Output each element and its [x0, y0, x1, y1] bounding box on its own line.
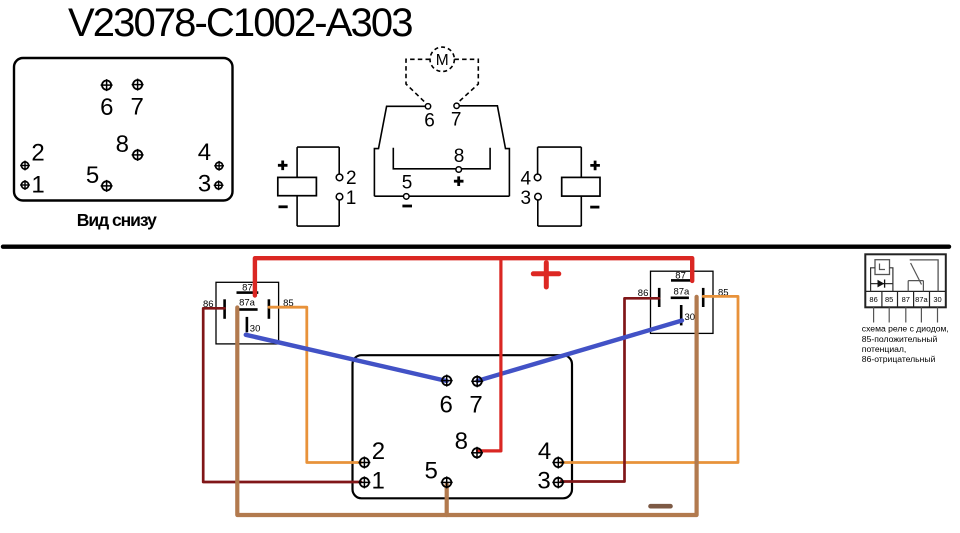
svg-text:4: 4 — [538, 438, 551, 465]
svg-text:87: 87 — [675, 270, 686, 281]
svg-text:7: 7 — [469, 391, 482, 418]
svg-text:87a: 87a — [239, 297, 256, 308]
svg-text:87: 87 — [242, 283, 253, 294]
svg-text:86-отрицательный: 86-отрицательный — [862, 354, 936, 364]
svg-text:3: 3 — [521, 188, 532, 209]
svg-text:3: 3 — [537, 468, 550, 495]
svg-text:30: 30 — [250, 323, 261, 334]
svg-text:2: 2 — [372, 438, 385, 465]
svg-text:8: 8 — [455, 428, 468, 455]
svg-text:6: 6 — [100, 94, 113, 121]
svg-text:схема реле с диодом,: схема реле с диодом, — [862, 323, 949, 333]
svg-text:87a: 87a — [915, 295, 928, 304]
svg-text:87: 87 — [902, 295, 910, 304]
svg-text:5: 5 — [425, 457, 438, 484]
svg-text:потенциал,: потенциал, — [862, 344, 907, 354]
svg-text:85: 85 — [885, 295, 893, 304]
svg-text:1: 1 — [31, 172, 44, 199]
svg-text:6: 6 — [440, 391, 453, 418]
svg-text:Вид снизу: Вид снизу — [77, 210, 157, 230]
svg-text:2: 2 — [31, 139, 44, 166]
svg-text:2: 2 — [346, 168, 357, 189]
svg-text:1: 1 — [372, 468, 385, 495]
svg-text:7: 7 — [451, 110, 462, 131]
svg-text:M: M — [436, 52, 449, 69]
svg-text:4: 4 — [198, 139, 211, 166]
svg-text:86: 86 — [869, 295, 877, 304]
svg-text:5: 5 — [402, 173, 413, 194]
svg-text:4: 4 — [521, 169, 532, 190]
svg-text:8: 8 — [116, 131, 129, 158]
svg-text:6: 6 — [424, 110, 435, 131]
svg-text:8: 8 — [454, 146, 465, 167]
svg-text:1: 1 — [346, 188, 357, 209]
svg-text:30: 30 — [933, 295, 941, 304]
svg-text:87a: 87a — [673, 287, 690, 298]
svg-text:30: 30 — [685, 312, 696, 323]
svg-text:3: 3 — [198, 171, 211, 198]
svg-text:V23078-C1002-A303: V23078-C1002-A303 — [68, 1, 412, 45]
svg-text:85-положительный: 85-положительный — [862, 334, 938, 344]
svg-text:7: 7 — [131, 94, 144, 121]
svg-text:5: 5 — [86, 162, 99, 189]
